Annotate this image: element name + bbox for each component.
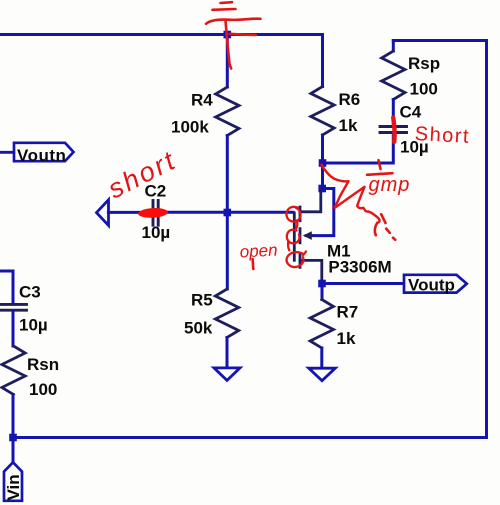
svg-text:R5: R5 xyxy=(191,291,213,310)
capacitor C4 xyxy=(380,127,407,133)
red dash marks 1 xyxy=(381,214,385,223)
wire Rsp top stub xyxy=(392,41,395,52)
red fraction numerator 1 xyxy=(379,160,381,169)
svg-text:R6: R6 xyxy=(339,90,361,109)
wire R6 to source node xyxy=(321,135,324,189)
red dash dot xyxy=(393,238,395,240)
wire drain to R7 xyxy=(321,284,324,300)
ground R5 xyxy=(214,368,240,381)
svg-text:1k: 1k xyxy=(339,116,358,135)
svg-text:1k: 1k xyxy=(337,329,356,348)
svg-text:Vin: Vin xyxy=(4,474,23,500)
red circle gate middle xyxy=(287,230,300,251)
wire C4 to node C xyxy=(323,134,394,163)
red vertical short stroke on C4 xyxy=(393,118,394,142)
svg-text:R4: R4 xyxy=(191,91,213,110)
port Vin xyxy=(4,462,22,501)
svg-text:Short: Short xyxy=(414,123,470,148)
svg-text:Rsn: Rsn xyxy=(27,355,59,374)
svg-text:10µ: 10µ xyxy=(142,223,171,242)
wire R5 to ground xyxy=(226,338,229,367)
node A top junction xyxy=(224,31,232,39)
node F bottom junction xyxy=(9,434,17,442)
capacitor C2 xyxy=(153,200,158,225)
svg-text:C4: C4 xyxy=(400,103,422,122)
resistor R5 xyxy=(215,289,238,338)
wire R4 branch upper xyxy=(226,35,229,88)
node B C2 junction xyxy=(224,209,232,217)
red ground doodle top dash 1 xyxy=(221,1,233,4)
transistor M1 source stub xyxy=(300,190,321,212)
wire left input to C3 xyxy=(0,271,13,303)
svg-text:Voutn: Voutn xyxy=(17,146,66,165)
svg-text:10µ: 10µ xyxy=(19,316,48,335)
port Voutn xyxy=(14,143,74,161)
svg-text:100: 100 xyxy=(29,380,57,399)
red ground doodle top dash 2 xyxy=(213,8,236,11)
transistor M1 bulk arrow xyxy=(306,234,312,237)
transistor M1 drain stub xyxy=(300,260,322,282)
resistor R4 xyxy=(216,87,239,136)
red circle gate top xyxy=(286,207,300,229)
resistor Rsn xyxy=(2,346,25,395)
resistor R7 xyxy=(310,300,333,349)
red ellipse short mark on C2 xyxy=(138,207,168,218)
wire top rail to R6 branch xyxy=(0,35,323,87)
wire Rsp to C4 xyxy=(392,100,395,125)
node C C4 junction xyxy=(319,159,327,167)
red ground doodle long wavy bar xyxy=(206,19,261,24)
capacitor C3 xyxy=(1,304,27,310)
resistor Rsp xyxy=(382,51,405,100)
svg-text:gmp: gmp xyxy=(369,174,411,196)
svg-text:Rsp: Rsp xyxy=(408,54,440,73)
svg-text:100k: 100k xyxy=(171,118,209,137)
wire C3 to Rsn xyxy=(12,312,15,347)
red ground doodle vertical stroke xyxy=(226,21,232,69)
wire Voutn stub xyxy=(0,151,14,154)
transistor M1 gate bar xyxy=(293,213,296,260)
red tick right of node A xyxy=(230,34,257,35)
wire R4 to R5 xyxy=(226,136,229,290)
transistor M1 bulk connection xyxy=(312,189,334,236)
node D source junction xyxy=(318,185,326,193)
svg-text:P3306M: P3306M xyxy=(328,258,391,277)
wire ground to C2 xyxy=(108,211,151,214)
svg-text:open: open xyxy=(239,241,278,262)
red fraction bar xyxy=(367,173,393,175)
red squiggle gmp pointer xyxy=(322,165,380,223)
port Voutp xyxy=(404,275,467,293)
red dash marks 2 xyxy=(386,229,390,233)
wire Rsn to Vin xyxy=(12,395,15,463)
resistor R6 xyxy=(311,87,334,136)
svg-text:R7: R7 xyxy=(337,303,359,322)
wire R7 to ground xyxy=(320,348,323,367)
wire VDD loop top right, right edge, bottom xyxy=(13,41,487,438)
svg-text:C3: C3 xyxy=(19,283,41,302)
node E drain junction xyxy=(318,280,326,288)
red circle drain bottom xyxy=(287,252,306,268)
svg-text:Voutp: Voutp xyxy=(408,276,455,295)
ground R7 xyxy=(309,368,336,381)
wire gate lead from node B xyxy=(227,211,293,214)
transistor M1 channel segments xyxy=(299,207,302,267)
svg-text:50k: 50k xyxy=(184,319,213,338)
red dash curve xyxy=(375,223,377,236)
wire drain to Voutp xyxy=(322,282,404,285)
ground C2 left xyxy=(97,200,109,226)
wire C2 to node B xyxy=(160,211,228,214)
svg-text:100: 100 xyxy=(410,80,438,99)
